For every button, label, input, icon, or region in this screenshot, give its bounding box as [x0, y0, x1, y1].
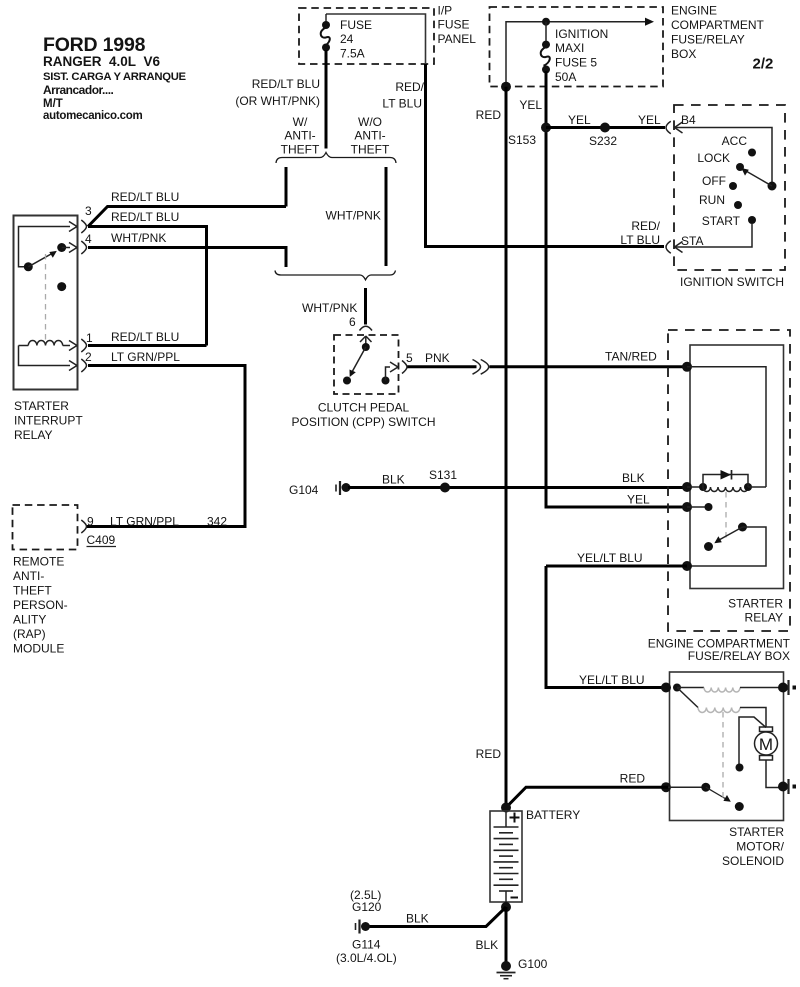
wire: CPP pin 5 PNK to inline connector — [408, 365, 477, 368]
ignition switch — [674, 105, 785, 289]
svg-text:G104: G104 — [289, 483, 319, 497]
svg-text:CLUTCH PEDAL: CLUTCH PEDAL — [318, 401, 410, 415]
pin 4 — [69, 232, 92, 254]
solenoid terminal (battery post, bottom right) — [789, 779, 797, 794]
svg-text:YEL: YEL — [519, 98, 542, 112]
svg-text:RED/LT BLU: RED/LT BLU — [252, 77, 320, 91]
pin 6 connector (top) — [360, 326, 373, 347]
svg-text:7.5A: 7.5A — [340, 47, 365, 61]
wire: BLK battery to G100 — [505, 907, 508, 962]
wire: pin 2 LT GRN/PPL to RAP module pin 9 — [87, 366, 246, 527]
starter relay coil + diode — [682, 470, 766, 492]
wire: pin 3 RED/LT BLU to pin 1 tie — [88, 227, 207, 346]
svg-text:YEL: YEL — [568, 113, 591, 127]
svg-text:3: 3 — [85, 204, 92, 218]
svg-text:RED/LT BLU: RED/LT BLU — [111, 190, 179, 204]
svg-text:W/O: W/O — [358, 115, 382, 129]
svg-text:WHT/PNK: WHT/PNK — [111, 231, 166, 245]
svg-text:WHT/PNK: WHT/PNK — [302, 301, 357, 315]
svg-text:START: START — [702, 214, 741, 228]
svg-text:RED: RED — [476, 108, 502, 122]
svg-text:BLK: BLK — [406, 912, 429, 926]
svg-text:G120: G120 — [352, 900, 382, 914]
wire stub: brace left lower — [285, 248, 288, 268]
label STARTER MOTOR/ SOLENOID — [722, 825, 785, 868]
junction S232 — [600, 123, 610, 133]
brace top (anti-theft split) — [276, 153, 396, 164]
svg-text:5: 5 — [406, 351, 413, 365]
svg-text:OFF: OFF — [702, 174, 726, 188]
svg-text:IGNITION: IGNITION — [555, 27, 608, 41]
connector STA — [666, 234, 703, 253]
wire: pin 3 RED/LT BLU up to W/ anti-theft brace — [88, 207, 286, 227]
svg-text:MOTOR/: MOTOR/ — [736, 840, 784, 854]
starter relay internals: YEL input contact — [682, 502, 713, 512]
solenoid internals: pull-in/hold-in windings — [661, 683, 788, 728]
ignition switch internal: START to STA — [675, 224, 752, 247]
label ENGINE COMPARTMENT FUSE/RELAY BOX (top right) — [671, 4, 773, 73]
label STARTER RELAY — [728, 597, 783, 625]
svg-text:RANGER 4.0L V6: RANGER 4.0L V6 — [43, 54, 161, 69]
pin 5 connector — [402, 351, 413, 374]
label RED/ LT BLU (I/P panel output) — [382, 80, 424, 111]
wire: RED main vertical (fuse box to battery) — [505, 87, 508, 808]
pin 2 — [69, 350, 92, 372]
svg-text:ACC: ACC — [722, 134, 748, 148]
svg-text:SIST. CARGA Y ARRANQUE: SIST. CARGA Y ARRANQUE — [43, 71, 187, 83]
svg-text:STA: STA — [681, 234, 703, 248]
svg-text:RED/: RED/ — [631, 219, 660, 233]
svg-text:FUSE/RELAY BOX: FUSE/RELAY BOX — [688, 649, 790, 663]
svg-text:BLK: BLK — [622, 471, 645, 485]
svg-text:PERSON-: PERSON- — [13, 598, 68, 612]
wire: pin 4 WHT/PNK to brace left lower stub — [88, 246, 288, 249]
battery — [490, 803, 580, 913]
wire inside ignition box with arrow — [506, 18, 654, 87]
svg-text:MODULE: MODULE — [13, 642, 64, 656]
starter interrupt relay box — [14, 216, 78, 390]
I/P fuse panel dashed box — [299, 4, 476, 65]
fuse 5 (ignition maxi fuse) — [541, 18, 550, 74]
svg-text:W/: W/ — [293, 115, 308, 129]
engine compartment fuse/relay box (starter relay) dashed — [668, 330, 790, 631]
svg-text:YEL: YEL — [638, 113, 661, 127]
wire: TAN/RED to starter relay — [490, 365, 688, 368]
svg-text:COMPARTMENT: COMPARTMENT — [671, 18, 765, 32]
svg-text:I/P: I/P — [438, 4, 453, 18]
svg-text:STARTER: STARTER — [729, 825, 784, 839]
svg-text:TAN/RED: TAN/RED — [605, 350, 657, 364]
svg-text:PNK: PNK — [425, 351, 450, 365]
label CLUTCH PEDAL POSITION (CPP) SWITCH — [292, 401, 436, 430]
svg-text:FORD 1998: FORD 1998 — [43, 34, 146, 56]
svg-text:IGNITION SWITCH: IGNITION SWITCH — [680, 275, 784, 289]
svg-text:2: 2 — [85, 350, 92, 364]
svg-text:342: 342 — [207, 515, 227, 529]
wire: brace to CPP switch pin 6 — [364, 288, 367, 325]
wire: YEL fuse 5 down to starter relay coil — [546, 71, 687, 507]
pin 1 — [69, 331, 93, 352]
connector C409 — [87, 533, 117, 547]
svg-text:BLK: BLK — [382, 473, 405, 487]
svg-text:ANTI-: ANTI- — [354, 129, 385, 143]
svg-text:ENGINE: ENGINE — [671, 4, 717, 18]
label ENGINE COMPARTMENT FUSE/RELAY BOX — [648, 637, 791, 664]
svg-text:automecanico.com: automecanico.com — [43, 110, 142, 122]
G104 ground — [289, 481, 351, 497]
starter motor M — [755, 727, 789, 792]
svg-text:MAXI: MAXI — [555, 41, 584, 55]
wire: YEL from S153 to ignition switch B4 — [546, 126, 665, 129]
svg-text:(OR WHT/PNK): (OR WHT/PNK) — [235, 94, 320, 108]
svg-text:WHT/PNK: WHT/PNK — [326, 209, 381, 223]
ignition switch position contacts — [697, 134, 756, 228]
ignition maxi fuse dashed box — [490, 7, 664, 87]
svg-text:RED: RED — [476, 747, 502, 761]
svg-text:FUSE: FUSE — [340, 18, 372, 32]
ignition switch internal: B4 feed to pivot — [675, 128, 777, 191]
svg-text:BATTERY: BATTERY — [526, 808, 580, 822]
svg-text:1: 1 — [86, 331, 93, 345]
svg-text:PANEL: PANEL — [438, 32, 477, 46]
starter relay internals: TAN/RED feed to coil — [682, 362, 766, 487]
wire: fuse 24 down to anti-theft brace — [325, 50, 328, 149]
svg-text:POSITION (CPP) SWITCH: POSITION (CPP) SWITCH — [292, 415, 436, 429]
svg-text:LT BLU: LT BLU — [382, 97, 422, 111]
starter motor/solenoid box — [670, 672, 784, 821]
starter relay solid box — [690, 345, 784, 589]
inline connector (double chevron) — [473, 360, 489, 375]
svg-text:RED/LT BLU: RED/LT BLU — [111, 330, 179, 344]
label W/ ANTI-THEFT — [281, 115, 320, 157]
G100 ground — [497, 957, 548, 979]
svg-text:RED/LT BLU: RED/LT BLU — [111, 210, 179, 224]
svg-text:RED/: RED/ — [395, 80, 424, 94]
svg-text:THEFT: THEFT — [13, 584, 52, 598]
label RED/ LT BLU (STA wire) — [620, 219, 660, 247]
svg-text:RUN: RUN — [699, 193, 725, 207]
svg-text:B4: B4 — [681, 113, 696, 127]
junction S153 — [541, 123, 551, 133]
junction dot S (RED feed at box bottom) — [501, 82, 511, 92]
svg-text:50A: 50A — [555, 70, 576, 84]
fuse 24 7.5A — [321, 14, 372, 61]
svg-text:LT BLU: LT BLU — [620, 233, 660, 247]
svg-text:LOCK: LOCK — [697, 151, 730, 165]
wire inside I/P panel: fuse 24 to panel edge — [326, 14, 426, 64]
starter relay switch — [682, 523, 766, 572]
wire: BLK battery negative to G114 — [368, 907, 506, 927]
starter interrupt relay internals: coil — [19, 341, 71, 366]
svg-text:G100: G100 — [518, 957, 548, 971]
svg-text:G114: G114 — [352, 938, 381, 952]
svg-text:STARTER: STARTER — [728, 597, 783, 611]
svg-text:STARTER: STARTER — [14, 399, 69, 413]
wire: RED battery to solenoid — [506, 787, 668, 807]
svg-text:6: 6 — [349, 315, 356, 329]
G114 ground — [336, 888, 397, 965]
svg-text:RED: RED — [620, 772, 646, 786]
connector B4 — [666, 113, 696, 134]
label STARTER INTERRUPT RELAY — [14, 399, 83, 442]
solenoid contact switch — [661, 712, 744, 811]
svg-text:SOLENOID: SOLENOID — [722, 854, 784, 868]
svg-text:ALITY: ALITY — [13, 613, 46, 627]
svg-text:RELAY: RELAY — [745, 611, 783, 625]
svg-text:(3.0L/4.OL): (3.0L/4.OL) — [336, 951, 397, 965]
svg-text:LT GRN/PPL: LT GRN/PPL — [110, 515, 179, 529]
svg-text:THEFT: THEFT — [281, 143, 320, 157]
svg-text:FUSE/RELAY: FUSE/RELAY — [671, 33, 745, 47]
CPP switch internals — [343, 343, 398, 385]
svg-text:YEL/LT BLU: YEL/LT BLU — [579, 673, 645, 687]
svg-text:4: 4 — [85, 232, 92, 246]
svg-text:YEL: YEL — [627, 493, 650, 507]
svg-text:FUSE 5: FUSE 5 — [555, 56, 597, 70]
wire: pin 1 RED/LT BLU — [88, 344, 207, 347]
brace bottom — [275, 271, 396, 280]
RAP module dashed box — [13, 505, 78, 550]
junction S131 — [440, 483, 450, 493]
label RED/LT BLU (OR WHT/PNK) — [235, 77, 320, 108]
svg-text:2/2: 2/2 — [753, 56, 774, 73]
title block — [43, 34, 187, 122]
wire stub: brace right (W/O anti-theft WHT/PNK path) — [385, 167, 388, 266]
svg-text:M: M — [759, 735, 773, 754]
svg-text:C409: C409 — [87, 533, 116, 547]
svg-text:S232: S232 — [589, 134, 617, 148]
svg-text:Arrancador....: Arrancador.... — [43, 83, 114, 97]
label REMOTE ANTI-THEFT PERSONALITY (RAP) MODULE — [13, 555, 68, 656]
svg-text:ANTI-: ANTI- — [284, 129, 315, 143]
svg-text:YEL/LT BLU: YEL/LT BLU — [577, 551, 643, 565]
wire: BLK from G104 to starter relay — [348, 486, 687, 489]
starter interrupt relay internals: switch — [19, 227, 71, 341]
svg-text:INTERRUPT: INTERRUPT — [14, 414, 83, 428]
svg-text:ANTI-: ANTI- — [13, 569, 44, 583]
pin 3 — [69, 204, 92, 233]
svg-text:RELAY: RELAY — [14, 428, 52, 442]
solenoid motor feed standoff — [736, 717, 767, 772]
wire stub: brace left upper (W/ anti-theft path) — [285, 167, 288, 207]
svg-text:BOX: BOX — [671, 47, 696, 61]
wire: YEL/LT BLU starter relay to solenoid — [546, 566, 668, 688]
svg-text:9: 9 — [87, 515, 94, 529]
clutch pedal position switch dashed box — [334, 335, 399, 394]
svg-text:THEFT: THEFT — [351, 143, 390, 157]
svg-text:LT GRN/PPL: LT GRN/PPL — [111, 350, 180, 364]
pin 9 — [81, 515, 94, 534]
svg-text:M/T: M/T — [43, 98, 63, 110]
label W/O ANTI-THEFT — [351, 115, 390, 157]
svg-text:S131: S131 — [429, 468, 457, 482]
svg-text:REMOTE: REMOTE — [13, 555, 64, 569]
svg-text:(RAP): (RAP) — [13, 627, 46, 641]
wire: I/P panel RED/LT BLU down and right to ignition switch STA — [426, 64, 665, 247]
svg-text:S153: S153 — [508, 133, 536, 147]
svg-text:BLK: BLK — [476, 938, 499, 952]
svg-text:FUSE: FUSE — [438, 18, 470, 32]
solenoid terminal (battery post, top right) — [789, 680, 797, 695]
starter relay plunger dashed link — [725, 492, 727, 542]
svg-text:24: 24 — [340, 32, 354, 46]
